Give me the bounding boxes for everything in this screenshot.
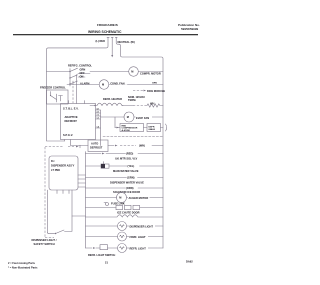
svg-text:DISPENSER WATER VALVE: DISPENSER WATER VALVE [110,180,144,184]
svg-text:SOLENOID ICE DOOR: SOLENOID ICE DOOR [113,190,140,194]
svg-text:DISPENSER LIGHT /: DISPENSER LIGHT / [32,238,57,242]
svg-text:NEUTRAL (W): NEUTRAL (W) [118,40,135,44]
svg-text:M: M [102,83,104,87]
svg-text:WIRING SCHEMATIC: WIRING SCHEMATIC [88,30,122,34]
svg-text:ADAPTIVE: ADAPTIVE [65,115,78,119]
svg-text:LT PNK: LT PNK [51,168,60,172]
svg-text:MAIN WATER VALVE: MAIN WATER VALVE [113,169,139,173]
svg-text:REFR. LIGHT SWITCH: REFR. LIGHT SWITCH [88,253,115,257]
svg-text:A-41890: A-41890 [122,129,131,132]
svg-text:(WH): (WH) [139,144,145,148]
svg-text:(RED): (RED) [126,152,133,156]
svg-text:D.I: D.I [51,159,55,163]
svg-text:(ORN): (ORN) [126,186,134,190]
svg-text:GRN: GRN [80,68,86,72]
svg-text:COMPR. MOTOR: COMPR. MOTOR [140,72,161,76]
svg-text:1-1: 1-1 [97,118,100,120]
svg-text:FUSE LINK: FUSE LINK [111,201,125,205]
svg-text:I.M. MTR SOL VLV: I.M. MTR SOL VLV [115,157,138,161]
svg-text:DEFROST: DEFROST [90,146,103,150]
svg-text:(GRN): (GRN) [127,176,135,180]
svg-text:AUTO: AUTO [91,142,98,146]
svg-text:DEFR. HEATER: DEFR. HEATER [103,97,122,101]
svg-text:SAFETY SWITCH: SAFETY SWITCH [34,242,55,246]
svg-text:DISPENSER LIGHT: DISPENSER LIGHT [130,224,154,228]
svg-text:ICE CHUTE DOOR: ICE CHUTE DOOR [117,210,140,214]
svg-text:S.P. E.V.: S.P. E.V. [63,133,73,137]
svg-text:FRIGIDAIRE/S: FRIGIDAIRE/S [97,23,118,27]
svg-text:ALARM: ALARM [80,82,89,86]
svg-text:M: M [119,196,121,200]
svg-text:DEFROST: DEFROST [65,119,78,123]
svg-text:FRZR. LIGHT: FRZR. LIGHT [130,235,147,239]
svg-text:TERM.: TERM. [128,98,136,102]
svg-text:FREEZER CONTROL: FREEZER CONTROL [40,86,66,90]
svg-text:M: M [127,115,129,119]
svg-text:7-1: 7-1 [97,115,100,117]
svg-text:WH: WH [150,102,154,106]
svg-text:COND. FAN: COND. FAN [110,81,124,85]
svg-text:ON: ON [80,75,84,79]
svg-text:5995D59999: 5995D59999 [181,27,199,31]
svg-text:1-4: 1-4 [97,126,100,129]
svg-text:68A90: 68A90 [149,128,156,131]
svg-text:REFR. LIGHT: REFR. LIGHT [130,246,147,250]
svg-text:EVAP. FAN: EVAP. FAN [136,116,149,120]
svg-text:DISPENSER ASS'Y: DISPENSER ASS'Y [51,164,75,168]
svg-text:AUGER MOTOR: AUGER MOTOR [129,196,149,200]
svg-text:* = Non-Illustrated Parts: * = Non-Illustrated Parts [8,266,38,270]
svg-text:REFR'G. CONTROL: REFR'G. CONTROL [68,64,92,68]
svg-text:4-1: 4-1 [97,108,100,111]
svg-text:# = Fast moving Parts: # = Fast moving Parts [8,261,35,265]
svg-text:GRN: GRN [152,82,157,84]
svg-text:(YEL): (YEL) [128,164,135,168]
svg-text:OFF: OFF [80,71,86,75]
svg-text:2-1: 2-1 [97,112,100,114]
svg-text:M: M [131,70,133,74]
svg-text:DA92: DA92 [186,260,193,264]
svg-text:(L) RED: (L) RED [96,39,106,43]
svg-text:S.T. B.L. E.V.: S.T. B.L. E.V. [63,107,79,111]
svg-text:DICE MODULE: DICE MODULE [147,89,165,93]
